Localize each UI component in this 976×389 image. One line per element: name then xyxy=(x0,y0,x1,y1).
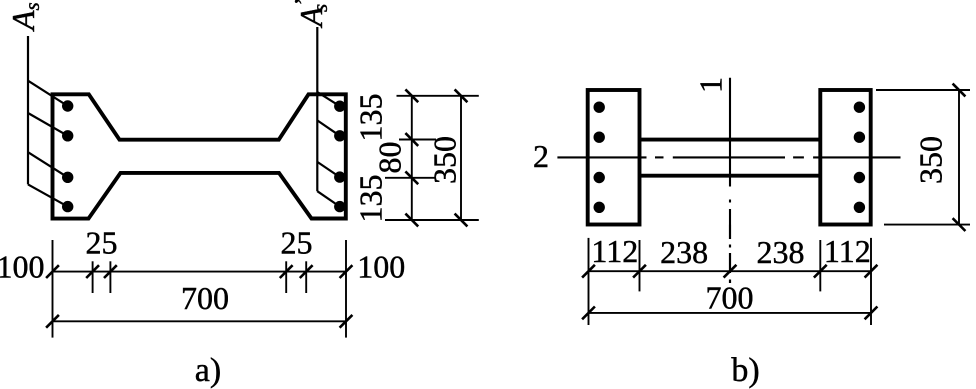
label 80 xyxy=(372,142,408,174)
centerline 2 (horizontal axis) xyxy=(557,156,900,158)
dimension line 350 xyxy=(460,96,462,220)
svg-text:1: 1 xyxy=(693,77,729,93)
svg-text:350: 350 xyxy=(427,136,463,184)
label 135 top xyxy=(353,94,389,142)
bottom dimension block of b xyxy=(589,238,872,325)
centerline 1 extension below section xyxy=(729,225,731,283)
ticks bottom dim block a xyxy=(46,265,352,328)
leader line As' (right) xyxy=(317,27,340,207)
rebar dots right flange a xyxy=(334,101,345,213)
right dimension block of a: extension lines xyxy=(385,96,479,220)
left flange rect b xyxy=(588,90,640,225)
svg-text:238: 238 xyxy=(660,234,708,270)
svg-text:112: 112 xyxy=(591,233,638,269)
svg-text:135: 135 xyxy=(353,175,389,223)
dimension line 100/25/.../25/100 xyxy=(53,271,347,273)
svg-text:700: 700 xyxy=(181,280,229,316)
svg-text:2: 2 xyxy=(533,138,549,174)
svg-text:238: 238 xyxy=(757,234,805,270)
svg-text:a): a) xyxy=(195,352,221,389)
svg-text:80: 80 xyxy=(372,142,408,174)
rebar dots left flange b xyxy=(594,102,605,214)
bottom dimension block of a: extension lines xyxy=(53,240,347,338)
dimension line 700 xyxy=(53,320,347,322)
ticks bottom dim block b xyxy=(582,265,877,320)
right dimension 350 of b xyxy=(876,90,970,225)
svg-text:A’s: A’s xyxy=(291,0,332,29)
label As xyxy=(5,2,44,32)
label 135 bottom xyxy=(353,175,389,223)
I-section outline a xyxy=(53,94,346,218)
rebar dots left flange a xyxy=(62,100,73,212)
rebar dots right flange b xyxy=(854,102,865,214)
svg-text:100: 100 xyxy=(357,249,405,285)
label 350 b xyxy=(913,136,949,184)
svg-text:112: 112 xyxy=(824,233,871,269)
centerline 1 (vertical axis) xyxy=(729,78,731,283)
label As' xyxy=(291,0,332,29)
svg-text:135: 135 xyxy=(353,94,389,142)
svg-text:b): b) xyxy=(731,352,759,389)
svg-text:700: 700 xyxy=(706,280,754,316)
dimension line 700 b xyxy=(589,312,872,314)
svg-text:25: 25 xyxy=(86,225,118,261)
label 1 xyxy=(693,77,729,93)
svg-text:350: 350 xyxy=(913,136,949,184)
svg-text:25: 25 xyxy=(281,225,313,261)
dimension line 135/80/135 xyxy=(411,96,413,220)
svg-text:100: 100 xyxy=(0,249,45,285)
web top line b xyxy=(640,138,821,142)
dimension line 112/238/238/112 xyxy=(589,270,872,272)
ticks right dim block xyxy=(405,89,467,226)
label 350 xyxy=(427,136,463,184)
leader line As (left) xyxy=(28,36,68,207)
web bottom line b xyxy=(640,174,821,178)
right flange rect b xyxy=(820,90,870,225)
